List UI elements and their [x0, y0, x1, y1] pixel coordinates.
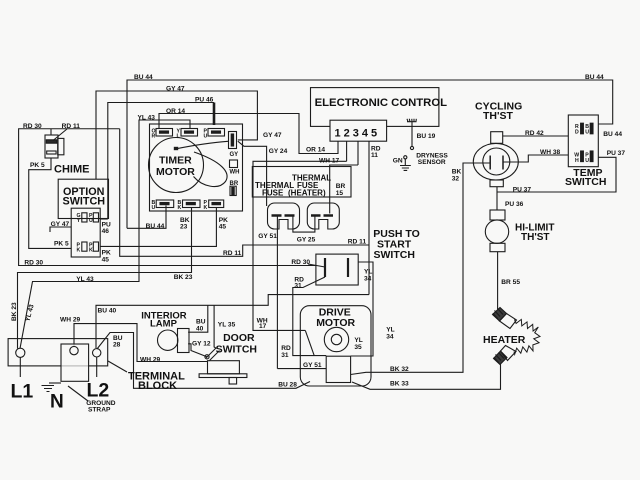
svg-text:TH'ST: TH'ST — [483, 110, 513, 122]
svg-text:H: H — [575, 158, 579, 164]
svg-text:YL: YL — [386, 327, 394, 334]
svg-text:PK 5: PK 5 — [30, 162, 45, 169]
svg-text:RD 30: RD 30 — [291, 259, 310, 266]
svg-text:HEATER: HEATER — [483, 334, 526, 346]
svg-text:34: 34 — [386, 334, 394, 341]
svg-text:GY 25: GY 25 — [297, 237, 316, 244]
svg-text:BR: BR — [230, 181, 239, 187]
svg-text:GN: GN — [393, 158, 403, 165]
svg-text:ELECTRONIC CONTROL: ELECTRONIC CONTROL — [315, 97, 448, 109]
svg-text:BU 44: BU 44 — [146, 223, 165, 230]
svg-text:46: 46 — [102, 228, 110, 235]
svg-text:LAMP: LAMP — [150, 319, 178, 330]
svg-text:BK 23: BK 23 — [174, 274, 193, 281]
svg-text:K: K — [77, 248, 81, 254]
svg-text:U: U — [585, 130, 589, 136]
svg-text:STRAP: STRAP — [88, 407, 111, 414]
svg-text:BLOCK: BLOCK — [138, 380, 177, 392]
svg-text:U: U — [89, 218, 93, 224]
svg-text:RD 11: RD 11 — [62, 123, 81, 130]
svg-text:BR 55: BR 55 — [501, 279, 520, 286]
svg-text:23: 23 — [180, 224, 188, 231]
svg-text:35: 35 — [354, 344, 362, 351]
svg-text:12345: 12345 — [335, 128, 381, 140]
svg-text:BR: BR — [336, 183, 346, 190]
svg-text:17: 17 — [259, 323, 267, 330]
svg-text:RD 30: RD 30 — [24, 260, 43, 267]
svg-text:28: 28 — [113, 342, 121, 349]
svg-text:MOTOR: MOTOR — [316, 317, 355, 329]
svg-text:RD 30: RD 30 — [23, 123, 42, 130]
svg-text:RD 11: RD 11 — [348, 239, 367, 246]
svg-text:OR 14: OR 14 — [306, 147, 325, 154]
svg-text:GY 47: GY 47 — [166, 86, 185, 93]
svg-text:34: 34 — [364, 276, 372, 283]
svg-text:BU 40: BU 40 — [98, 308, 117, 315]
svg-text:L1: L1 — [11, 381, 34, 403]
svg-text:RD: RD — [281, 345, 291, 352]
svg-text:WH: WH — [230, 170, 240, 176]
svg-text:BK 23: BK 23 — [11, 302, 18, 321]
svg-text:L2: L2 — [87, 380, 110, 402]
svg-text:BU: BU — [196, 319, 206, 326]
svg-text:RD 42: RD 42 — [525, 130, 544, 137]
svg-text:40: 40 — [196, 326, 204, 333]
svg-text:K: K — [204, 205, 208, 211]
svg-text:31: 31 — [294, 283, 302, 290]
svg-text:MOTOR: MOTOR — [156, 166, 195, 178]
svg-text:BU 44: BU 44 — [603, 131, 622, 138]
svg-text:PK: PK — [102, 250, 111, 257]
svg-text:GY 24: GY 24 — [269, 148, 288, 155]
svg-text:U: U — [585, 158, 589, 164]
svg-text:K: K — [178, 205, 182, 211]
svg-text:GY 12: GY 12 — [192, 340, 211, 347]
svg-text:U: U — [204, 134, 208, 140]
svg-text:BK: BK — [452, 169, 462, 176]
svg-text:TH'ST: TH'ST — [521, 232, 550, 243]
svg-text:BU 44: BU 44 — [585, 74, 604, 81]
svg-text:BK 32: BK 32 — [390, 366, 409, 373]
svg-text:RD 11: RD 11 — [223, 250, 242, 257]
svg-text:TIMER: TIMER — [159, 155, 192, 167]
svg-text:CHIME: CHIME — [54, 164, 89, 176]
svg-text:N: N — [50, 392, 64, 413]
svg-text:PU 37: PU 37 — [513, 187, 532, 194]
svg-text:WH 17: WH 17 — [319, 158, 339, 165]
svg-text:YL 35: YL 35 — [218, 322, 236, 329]
svg-text:YL 43: YL 43 — [138, 115, 156, 122]
svg-text:GY 51: GY 51 — [258, 233, 277, 240]
svg-text:45: 45 — [102, 257, 110, 264]
svg-text:SWITCH: SWITCH — [63, 196, 106, 208]
svg-text:(HEATER): (HEATER) — [288, 189, 326, 198]
svg-text:SENSOR: SENSOR — [418, 159, 446, 166]
svg-text:WH 29: WH 29 — [60, 317, 80, 324]
svg-text:PU 37: PU 37 — [607, 150, 626, 157]
svg-text:D: D — [575, 130, 579, 136]
svg-text:WH 29: WH 29 — [140, 357, 160, 364]
svg-text:YL 43: YL 43 — [24, 303, 35, 322]
svg-text:PU 46: PU 46 — [195, 97, 214, 104]
svg-text:GY 47: GY 47 — [51, 221, 70, 228]
svg-text:32: 32 — [452, 176, 460, 183]
svg-text:K: K — [89, 248, 93, 254]
svg-text:OR 14: OR 14 — [166, 108, 185, 115]
svg-text:Y: Y — [77, 218, 81, 224]
svg-text:31: 31 — [281, 352, 289, 359]
svg-text:BU 28: BU 28 — [278, 382, 297, 389]
svg-text:YL 43: YL 43 — [76, 276, 94, 283]
svg-text:SWITCH: SWITCH — [565, 176, 606, 188]
svg-text:YL: YL — [364, 269, 372, 276]
svg-text:BK 33: BK 33 — [390, 381, 409, 388]
svg-text:DOOR: DOOR — [223, 332, 255, 344]
svg-text:11: 11 — [371, 152, 378, 159]
svg-text:15: 15 — [336, 190, 344, 197]
svg-text:PK 5: PK 5 — [54, 241, 69, 248]
svg-text:45: 45 — [219, 224, 227, 231]
svg-text:FUSE: FUSE — [262, 189, 284, 198]
svg-text:U: U — [152, 205, 156, 211]
svg-text:GY 47: GY 47 — [263, 132, 282, 139]
svg-text:GY: GY — [230, 152, 239, 158]
svg-text:BU 19: BU 19 — [417, 133, 436, 140]
svg-text:SWITCH: SWITCH — [216, 344, 257, 356]
svg-text:SWITCH: SWITCH — [374, 249, 415, 261]
svg-text:PU 36: PU 36 — [505, 201, 524, 208]
svg-text:BU 44: BU 44 — [134, 74, 153, 81]
svg-text:YL: YL — [354, 337, 362, 344]
svg-text:GY 51: GY 51 — [303, 362, 322, 369]
svg-text:R: R — [152, 134, 156, 140]
svg-text:WH 38: WH 38 — [540, 149, 560, 156]
